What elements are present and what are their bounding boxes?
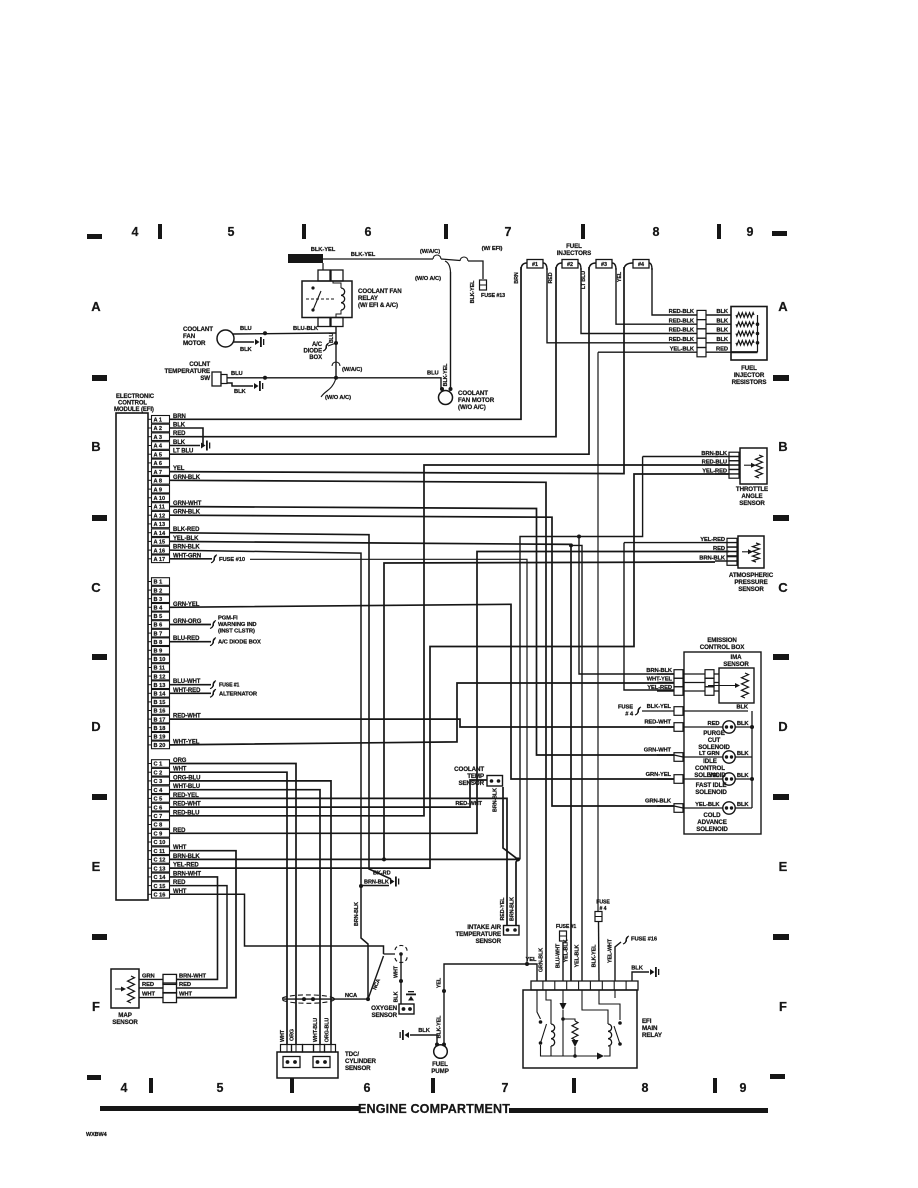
svg-text:DIODE: DIODE	[303, 349, 322, 355]
svg-text:(W/O A/C): (W/O A/C)	[325, 395, 351, 401]
svg-text:A/C: A/C	[312, 342, 323, 348]
svg-text:TEMPERATURE: TEMPERATURE	[455, 931, 501, 938]
svg-text:RED-BLK: RED-BLK	[669, 337, 695, 343]
svg-text:YEL-BLK: YEL-BLK	[695, 802, 720, 808]
svg-text:(W/ EFI): (W/ EFI)	[482, 246, 503, 252]
svg-text:WHT: WHT	[179, 992, 192, 998]
svg-text:SOLENOID: SOLENOID	[696, 826, 728, 833]
svg-text:WHT-YEL: WHT-YEL	[647, 677, 673, 683]
svg-text:IMA: IMA	[730, 654, 742, 661]
svg-text:B 4: B 4	[154, 606, 164, 612]
svg-text:B 14: B 14	[154, 692, 167, 698]
svg-text:A 11: A 11	[154, 505, 165, 511]
svg-text:BLK: BLK	[631, 966, 644, 972]
svg-text:(W/O A/C): (W/O A/C)	[415, 276, 441, 282]
svg-text:C 6: C 6	[154, 805, 163, 811]
svg-text:FUSE: FUSE	[618, 705, 633, 711]
svg-text:(W/A/C): (W/A/C)	[420, 249, 440, 255]
svg-text:YEL-BLK: YEL-BLK	[564, 939, 570, 962]
svg-text:B 6: B 6	[154, 623, 163, 629]
svg-text:SENSOR: SENSOR	[458, 780, 484, 787]
svg-text:GRN-BLK: GRN-BLK	[645, 799, 672, 805]
svg-text:MODULE (EFI): MODULE (EFI)	[114, 407, 154, 413]
svg-text:BRN: BRN	[514, 272, 520, 284]
svg-text:BLK: BLK	[716, 328, 729, 334]
svg-text:ANGLE: ANGLE	[741, 493, 762, 500]
svg-text:8: 8	[653, 225, 660, 239]
svg-text:YEL-BLK: YEL-BLK	[670, 346, 695, 352]
svg-text:CYLINDER: CYLINDER	[345, 1058, 376, 1065]
svg-text:E: E	[779, 859, 788, 874]
svg-text:4: 4	[121, 1081, 128, 1095]
svg-text:RED-WHT: RED-WHT	[455, 801, 482, 807]
svg-text:#4: #4	[638, 262, 644, 268]
svg-text:GRN-WHT: GRN-WHT	[644, 748, 672, 754]
svg-text:BLK: BLK	[736, 705, 749, 711]
svg-text:BRN-BLK: BRN-BLK	[364, 880, 389, 886]
svg-text:WHT: WHT	[280, 1029, 286, 1042]
svg-text:PRESSURE: PRESSURE	[734, 579, 767, 586]
svg-text:SENSOR: SENSOR	[738, 586, 764, 593]
svg-text:SENSOR: SENSOR	[371, 1012, 397, 1019]
svg-text:BLU: BLU	[427, 371, 439, 377]
svg-text:RELAY: RELAY	[642, 1032, 663, 1039]
svg-text:PURGE: PURGE	[703, 730, 725, 737]
svg-text:A: A	[91, 299, 101, 314]
svg-text:A 13: A 13	[154, 522, 166, 528]
svg-text:COOLANT: COOLANT	[183, 326, 213, 333]
svg-text:FAN MOTOR: FAN MOTOR	[458, 397, 495, 404]
svg-text:BLK-YEL: BLK-YEL	[351, 252, 376, 258]
svg-text:A 10: A 10	[154, 496, 166, 502]
svg-text:CUT: CUT	[708, 737, 721, 744]
svg-text:NCA: NCA	[345, 993, 358, 999]
svg-text:GRN-YEL: GRN-YEL	[646, 772, 672, 778]
svg-text:GRN: GRN	[142, 973, 155, 979]
svg-text:7: 7	[505, 225, 512, 239]
svg-text:BRN-BLK: BRN-BLK	[646, 668, 673, 674]
svg-text:CONTROL BOX: CONTROL BOX	[700, 644, 745, 651]
svg-text:BRN-BLK: BRN-BLK	[493, 788, 499, 812]
svg-text:C 16: C 16	[154, 893, 166, 899]
svg-text:9: 9	[747, 225, 754, 239]
svg-text:RED-WHT: RED-WHT	[644, 720, 671, 726]
svg-text:A 7: A 7	[154, 470, 163, 476]
svg-text:C 9: C 9	[154, 832, 163, 838]
svg-text:A 9: A 9	[154, 487, 163, 493]
svg-text:FAN: FAN	[183, 333, 196, 340]
svg-text:C 4: C 4	[154, 788, 164, 794]
svg-text:SOLENOID: SOLENOID	[695, 789, 727, 796]
svg-text:IDLE: IDLE	[703, 758, 717, 765]
svg-text:BLK-YEL: BLK-YEL	[437, 1015, 443, 1038]
svg-text:(W/O A/C): (W/O A/C)	[458, 404, 486, 411]
svg-text:A 4: A 4	[154, 444, 163, 450]
svg-text:WXBW4: WXBW4	[86, 1132, 108, 1138]
svg-text:FUSE #13: FUSE #13	[481, 293, 505, 299]
svg-text:THROTTLE: THROTTLE	[736, 486, 768, 493]
svg-text:C 1: C 1	[154, 762, 163, 768]
svg-text:YEL-BLK: YEL-BLK	[575, 944, 581, 967]
svg-text:BLK: BLK	[737, 802, 750, 808]
svg-text:FUEL: FUEL	[566, 243, 582, 250]
svg-text:SENSOR: SENSOR	[739, 500, 765, 507]
svg-text:WARNING IND: WARNING IND	[218, 622, 257, 628]
svg-text:B: B	[778, 439, 787, 454]
svg-text:BLU-BLK: BLU-BLK	[293, 326, 319, 332]
svg-text:RED-BLK: RED-BLK	[669, 309, 695, 315]
svg-text:F: F	[779, 999, 787, 1014]
svg-text:INTAKE AIR: INTAKE AIR	[467, 924, 501, 931]
svg-text:RED: RED	[548, 272, 554, 283]
svg-text:SENSOR: SENSOR	[475, 938, 501, 945]
svg-text:B 12: B 12	[154, 674, 166, 680]
svg-text:C 13: C 13	[154, 866, 166, 872]
svg-text:RED-BLK: RED-BLK	[669, 318, 695, 324]
svg-text:A 15: A 15	[154, 540, 166, 546]
svg-text:COOLANT: COOLANT	[454, 766, 484, 773]
svg-text:B 20: B 20	[154, 743, 166, 749]
svg-text:BLK: BLK	[418, 1028, 431, 1034]
svg-text:BLK: BLK	[234, 389, 247, 395]
svg-text:BLK-YEL: BLK-YEL	[647, 704, 672, 710]
svg-text:C: C	[91, 580, 101, 595]
svg-text:EFI: EFI	[642, 1018, 652, 1025]
svg-text:FAST IDLE: FAST IDLE	[696, 782, 727, 789]
svg-text:FUSE #1: FUSE #1	[556, 924, 577, 930]
svg-text:BLK-YEL: BLK-YEL	[592, 944, 598, 967]
svg-text:ORG: ORG	[290, 1029, 296, 1041]
svg-text:ELECTRONIC: ELECTRONIC	[116, 394, 155, 400]
svg-text:BLU-WHT: BLU-WHT	[556, 943, 562, 968]
svg-text:B 15: B 15	[154, 700, 166, 706]
svg-text:LT BLU: LT BLU	[581, 271, 587, 289]
svg-text:MAP: MAP	[118, 1012, 131, 1019]
svg-text:B: B	[91, 439, 100, 454]
svg-text:C: C	[778, 580, 788, 595]
svg-text:RED: RED	[142, 982, 154, 988]
svg-text:B 18: B 18	[154, 726, 166, 732]
svg-text:GRN-BLK: GRN-BLK	[539, 948, 545, 972]
svg-text:ALTERNATOR: ALTERNATOR	[219, 691, 258, 697]
svg-text:BRN-WHT: BRN-WHT	[179, 973, 207, 979]
svg-text:ORG-BLU: ORG-BLU	[325, 1018, 331, 1043]
svg-text:SW: SW	[200, 375, 210, 382]
svg-text:C 2: C 2	[154, 770, 163, 776]
svg-text:YEL: YEL	[437, 977, 443, 988]
svg-text:B 19: B 19	[154, 735, 166, 741]
svg-text:B 7: B 7	[154, 631, 163, 637]
svg-text:FUSE #10: FUSE #10	[219, 557, 245, 563]
svg-text:BLK: BLK	[737, 751, 750, 757]
svg-text:PUMP: PUMP	[431, 1068, 448, 1075]
svg-text:A/C DIODE BOX: A/C DIODE BOX	[218, 640, 261, 646]
svg-text:BLK: BLK	[394, 991, 400, 1002]
svg-text:A 12: A 12	[154, 513, 166, 519]
svg-text:B 11: B 11	[154, 666, 166, 672]
svg-text:BLK: BLK	[737, 773, 750, 779]
svg-text:BLK: BLK	[716, 309, 729, 315]
svg-text:C 12: C 12	[154, 858, 166, 864]
svg-text:B 13: B 13	[154, 683, 166, 689]
svg-text:4: 4	[132, 225, 139, 239]
svg-text:ADVANCE: ADVANCE	[697, 819, 726, 826]
svg-text:C 14: C 14	[154, 875, 167, 881]
svg-text:A 2: A 2	[154, 426, 163, 432]
svg-text:5: 5	[217, 1081, 224, 1095]
svg-text:A 5: A 5	[154, 452, 163, 458]
svg-text:BK-RD: BK-RD	[373, 871, 391, 877]
svg-text:#1: #1	[532, 262, 538, 268]
svg-text:COLD: COLD	[703, 812, 721, 819]
svg-text:RED: RED	[179, 982, 191, 988]
svg-text:FUSE: FUSE	[596, 900, 610, 906]
svg-text:BRN-BLK: BRN-BLK	[354, 902, 360, 926]
svg-text:A 1: A 1	[154, 418, 163, 424]
svg-text:A: A	[778, 299, 788, 314]
svg-text:YEL-WHT: YEL-WHT	[608, 938, 614, 963]
svg-text:BLU: BLU	[231, 371, 243, 377]
svg-text:B 8: B 8	[154, 640, 163, 646]
svg-text:D: D	[91, 719, 100, 734]
svg-text:6: 6	[365, 225, 372, 239]
svg-text:COLNT: COLNT	[189, 361, 210, 368]
svg-text:B 16: B 16	[154, 709, 166, 715]
svg-text:#2: #2	[567, 262, 573, 268]
svg-text:8: 8	[642, 1081, 649, 1095]
svg-text:BRN-BLK: BRN-BLK	[510, 897, 516, 921]
svg-text:B 5: B 5	[154, 614, 163, 620]
svg-text:(W/ EFI & A/C): (W/ EFI & A/C)	[358, 302, 398, 309]
svg-text:RED: RED	[716, 346, 728, 352]
svg-text:BOX: BOX	[309, 355, 322, 361]
svg-text:C 8: C 8	[154, 823, 163, 829]
svg-text:EMISSION: EMISSION	[707, 637, 737, 644]
svg-text:YEL: YEL	[617, 271, 623, 282]
svg-text:TDC/: TDC/	[345, 1051, 359, 1058]
svg-text:BLK-YEL: BLK-YEL	[470, 280, 476, 303]
svg-text:(W/A/C): (W/A/C)	[342, 367, 362, 373]
svg-text:B 17: B 17	[154, 717, 166, 723]
svg-text:INJECTOR: INJECTOR	[734, 372, 765, 379]
svg-text:MOTOR: MOTOR	[183, 340, 206, 347]
svg-text:CONTROL: CONTROL	[118, 401, 147, 407]
svg-text:C 10: C 10	[154, 840, 166, 846]
svg-text:(INST CLSTR): (INST CLSTR)	[218, 629, 255, 635]
svg-text:B 2: B 2	[154, 588, 163, 594]
svg-text:B 1: B 1	[154, 580, 163, 586]
svg-text:C 3: C 3	[154, 779, 163, 785]
svg-text:YEL-RED: YEL-RED	[700, 537, 725, 543]
svg-text:B 9: B 9	[154, 649, 163, 655]
svg-text:WHT-BLU: WHT-BLU	[313, 1018, 319, 1042]
svg-text:RED-BLK: RED-BLK	[669, 328, 695, 334]
svg-text:6: 6	[364, 1081, 371, 1095]
svg-text:F: F	[92, 999, 100, 1014]
svg-text:INJECTORS: INJECTORS	[557, 250, 591, 257]
svg-text:TEMP: TEMP	[467, 773, 484, 780]
svg-text:B 3: B 3	[154, 597, 163, 603]
svg-text:TEMPERATURE: TEMPERATURE	[164, 368, 210, 375]
svg-text:WHT: WHT	[142, 992, 155, 998]
svg-text:ATMOSPHERIC: ATMOSPHERIC	[729, 572, 774, 579]
svg-text:# 4: # 4	[625, 712, 634, 718]
svg-text:SENSOR: SENSOR	[112, 1019, 138, 1026]
svg-text:FUEL: FUEL	[741, 365, 757, 372]
svg-text:C 11: C 11	[154, 849, 166, 855]
svg-text:FUSE #1: FUSE #1	[219, 683, 240, 689]
svg-text:SENSOR: SENSOR	[723, 661, 749, 668]
svg-text:RELAY: RELAY	[358, 295, 379, 302]
svg-text:BLK-YEL: BLK-YEL	[443, 363, 449, 386]
svg-text:BLK: BLK	[737, 721, 750, 727]
svg-text:YEL-RED: YEL-RED	[647, 685, 672, 691]
svg-text:BLU: BLU	[240, 326, 252, 332]
svg-text:FUEL: FUEL	[432, 1061, 448, 1068]
svg-text:MAIN: MAIN	[642, 1025, 658, 1032]
svg-text:A 16: A 16	[154, 548, 166, 554]
svg-text:C 5: C 5	[154, 797, 163, 803]
svg-text:WHT: WHT	[394, 965, 400, 978]
svg-text:FUSE #16: FUSE #16	[631, 937, 658, 943]
svg-text:OXYGEN: OXYGEN	[371, 1005, 398, 1012]
svg-text:#3: #3	[601, 262, 607, 268]
svg-text:C 7: C 7	[154, 814, 163, 820]
svg-text:ENGINE COMPARTMENT: ENGINE COMPARTMENT	[358, 1102, 510, 1116]
svg-text:COOLANT FAN: COOLANT FAN	[358, 288, 402, 295]
svg-text:D: D	[778, 719, 787, 734]
svg-text:BLU: BLU	[329, 333, 335, 343]
svg-text:RED: RED	[708, 721, 720, 727]
svg-text:LT GRN: LT GRN	[699, 751, 720, 757]
svg-text:RED-YEL: RED-YEL	[500, 897, 506, 921]
svg-text:SENSOR: SENSOR	[345, 1065, 371, 1072]
svg-text:BLK: BLK	[716, 337, 729, 343]
svg-text:BLK: BLK	[716, 318, 729, 324]
svg-text:C 15: C 15	[154, 884, 166, 890]
svg-text:A 14: A 14	[154, 531, 166, 537]
svg-text:9: 9	[740, 1081, 747, 1095]
svg-text:7: 7	[502, 1081, 509, 1095]
svg-text:BLK-YEL: BLK-YEL	[311, 247, 336, 253]
svg-text:A 3: A 3	[154, 435, 163, 441]
svg-text:RESISTORS: RESISTORS	[732, 379, 767, 386]
svg-text:CONTROL: CONTROL	[695, 765, 725, 772]
svg-text:YEL: YEL	[709, 773, 721, 779]
svg-text:A 17: A 17	[154, 557, 166, 563]
svg-text:B 10: B 10	[154, 657, 166, 663]
svg-text:A 8: A 8	[154, 479, 163, 485]
svg-text:COOLANT: COOLANT	[458, 390, 488, 397]
svg-text:PGM-FI: PGM-FI	[218, 616, 238, 622]
svg-text:5: 5	[228, 225, 235, 239]
svg-text:E: E	[92, 859, 101, 874]
svg-text:BLK: BLK	[240, 347, 253, 353]
svg-text:A 6: A 6	[154, 461, 163, 467]
